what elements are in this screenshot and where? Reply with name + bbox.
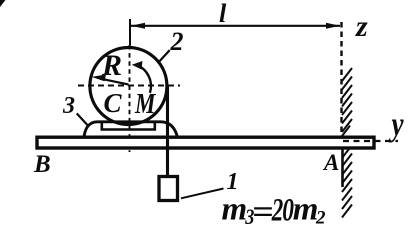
pulley disk 2 [90,48,167,125]
rotation arc arrow [136,65,151,93]
wall hatching [342,68,352,218]
svg-text:l: l [219,0,227,28]
wall line below beam [341,150,344,188]
support plate [102,123,155,130]
dimension extension tick [129,19,131,46]
string [166,86,169,176]
weight 1 [159,177,178,201]
svg-text:C: C [104,88,123,118]
z axis dashed line [340,22,342,135]
svg-text:2: 2 [271,193,283,229]
svg-text:m: m [222,192,248,228]
svg-text:2: 2 [170,27,184,56]
leader line 1 [181,189,224,199]
beam AB [37,137,374,148]
svg-text:=: = [252,193,274,229]
svg-text:M: M [134,88,156,120]
svg-text:3: 3 [62,93,75,119]
horizontal center dashed line [78,85,180,87]
svg-text:B: B [33,151,51,178]
y axis dashed line [343,140,398,142]
leader line 3 [77,113,89,126]
dimension arrow left [131,23,145,29]
svg-text:m: m [293,192,319,228]
svg-text:z: z [355,10,368,43]
svg-text:2: 2 [315,208,326,229]
svg-text:A: A [322,150,339,175]
corner mark [0,0,6,7]
dimension line l [131,25,340,27]
radius arrow R [100,79,129,85]
svg-text:R: R [101,49,122,82]
vertical center dashed line [129,45,131,152]
dimension arrow right [326,23,340,29]
support cradle 3 outline [84,122,178,138]
leader line 2 [159,50,170,62]
